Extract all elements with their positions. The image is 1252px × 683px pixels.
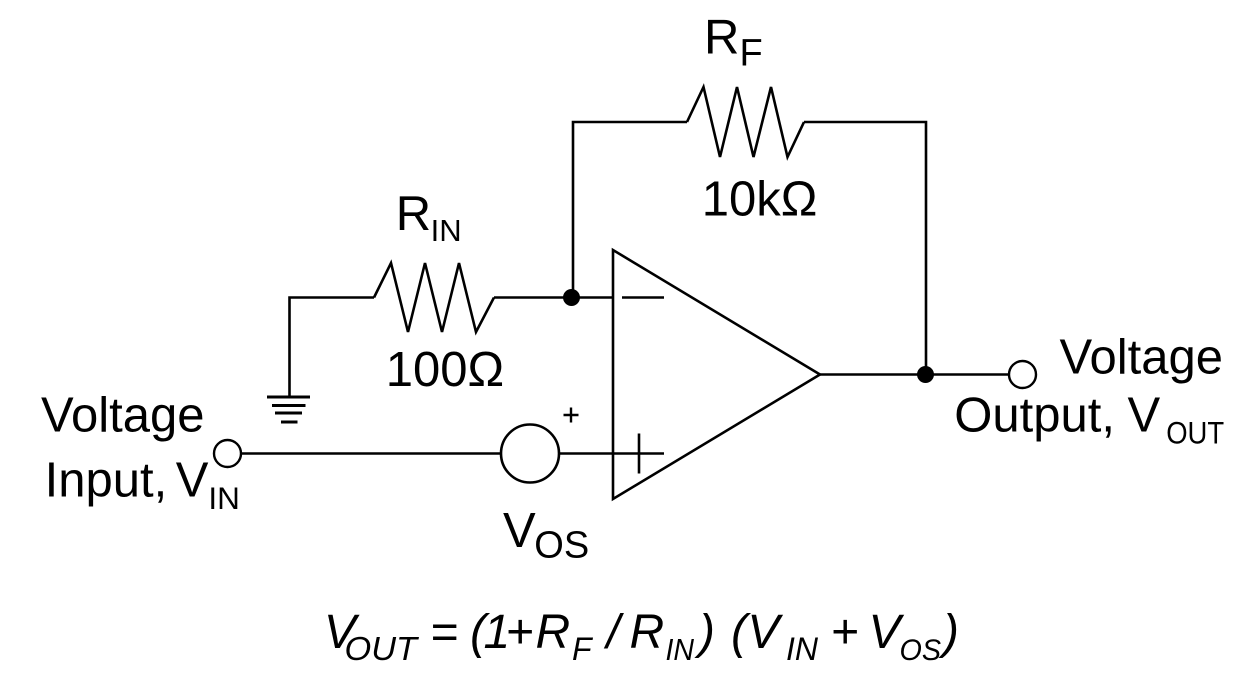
op-amp plus sign vertical stroke <box>638 434 641 474</box>
svg-text:R: R <box>630 606 665 659</box>
wire VOS to op-amp noninverting input <box>559 452 664 455</box>
svg-text:/: / <box>604 606 625 659</box>
wire feedback top-right horizontal and right vertical <box>804 122 926 375</box>
svg-text:): ) <box>694 606 715 659</box>
op-amp U1 <box>613 250 820 499</box>
svg-text:V: V <box>503 504 536 558</box>
svg-text:OS: OS <box>534 525 589 567</box>
svg-text:R: R <box>704 11 739 65</box>
svg-text:F: F <box>740 32 763 74</box>
svg-text:): ) <box>938 606 959 659</box>
svg-text:OS: OS <box>900 634 942 667</box>
wire op-amp output <box>820 373 1009 376</box>
node output junction <box>917 366 934 383</box>
svg-text:Voltage: Voltage <box>1060 331 1224 385</box>
wire RIN left lead and ground drop <box>290 298 375 397</box>
formula VOUT = (1+RF / RIN) (VIN + VOS) <box>324 606 959 667</box>
output terminal circle <box>1009 361 1036 388</box>
svg-text:100Ω: 100Ω <box>386 343 504 397</box>
svg-text:Input,: Input, <box>45 454 168 508</box>
svg-text:IN: IN <box>431 213 462 248</box>
svg-text:=: = <box>430 606 458 659</box>
resistor RIN zigzag <box>374 263 494 332</box>
node inverting input junction <box>563 289 580 306</box>
ground <box>267 397 310 422</box>
svg-text:OUT: OUT <box>345 630 420 667</box>
svg-text:V: V <box>176 454 209 508</box>
wire feedback left vertical and top-left horizontal <box>573 122 687 298</box>
resistor RF zigzag <box>687 87 804 157</box>
svg-text:Output,: Output, <box>954 389 1115 443</box>
svg-text:R: R <box>396 187 431 241</box>
svg-text:V: V <box>747 606 783 659</box>
svg-text:F: F <box>572 631 594 667</box>
svg-text:V: V <box>1128 389 1161 443</box>
op-amp minus sign <box>622 296 664 299</box>
svg-text:IN: IN <box>208 480 240 516</box>
svg-text:IN: IN <box>666 632 695 667</box>
input terminal circle <box>214 440 241 467</box>
voltage source VOS circle <box>501 425 559 483</box>
svg-text:OUT: OUT <box>1166 415 1224 451</box>
svg-text:+: + <box>831 606 859 659</box>
wire RIN to op-amp inverting input <box>494 296 613 299</box>
VOS plus polarity mark <box>564 408 579 423</box>
svg-text:+: + <box>506 606 534 659</box>
svg-text:Voltage: Voltage <box>41 388 205 442</box>
svg-text:10kΩ: 10kΩ <box>702 173 818 227</box>
svg-text:IN: IN <box>786 631 819 667</box>
svg-text:R: R <box>536 606 571 659</box>
wire input terminal to VOS <box>241 452 501 455</box>
